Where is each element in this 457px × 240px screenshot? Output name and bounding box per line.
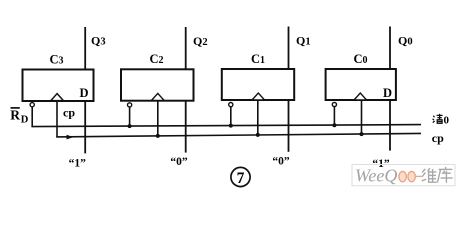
clock triangle C0 [354, 93, 367, 100]
svg-text:“1”: “1” [69, 158, 87, 170]
junction dot C2 reset [128, 124, 132, 128]
svg-text:D: D [21, 114, 29, 125]
wire C2 clock stem [157, 101, 159, 136]
wire D3 input down to constant [84, 101, 86, 153]
svg-text:Q1: Q1 [296, 34, 311, 48]
svg-text:C3: C3 [50, 53, 64, 67]
flip-flop C2 box [121, 69, 194, 100]
svg-text:C0: C0 [354, 52, 368, 66]
wire C3 clock stem [56, 101, 58, 137]
wire clear rail (qing0 net) [31, 125, 421, 127]
flip-flop C1 box [222, 69, 294, 100]
junction dot C1 reset [229, 124, 233, 128]
wire C1 clock stem [257, 100, 259, 135]
svg-text:Q3: Q3 [91, 34, 106, 48]
clock triangle C1 [252, 93, 265, 100]
label qing0 (clear to 0) at right [433, 114, 443, 124]
svg-text:“0”: “0” [170, 156, 188, 168]
figure number 7 in circle [231, 167, 250, 186]
clock triangle C3 [51, 94, 64, 101]
svg-text:C2: C2 [150, 52, 164, 66]
wire C0 clock stem [361, 100, 363, 134]
svg-text:cp: cp [432, 131, 444, 145]
arrow mark on cp rail [67, 135, 74, 140]
svg-text:D: D [383, 86, 392, 100]
reset bubble C0 [332, 102, 336, 106]
wire Q3 output [84, 27, 86, 70]
flip-flop C3 box [23, 70, 94, 102]
wire D0 input down to constant [389, 100, 391, 151]
wire D2 input down to constant [185, 101, 187, 153]
wire C0 reset stem [333, 107, 335, 126]
svg-text:Q2: Q2 [193, 34, 208, 48]
junction dot C1 clock [256, 133, 260, 137]
svg-text:0: 0 [444, 114, 450, 126]
reset bubble C1 [229, 103, 233, 107]
junction dot C0 reset [332, 123, 336, 127]
wire Q0 output [389, 27, 391, 70]
clock triangle C2 [152, 93, 165, 100]
watermark WeeQoo weiku [352, 165, 455, 186]
svg-text:WeeQ: WeeQ [355, 166, 397, 186]
wire D1 input down to constant [288, 100, 290, 152]
wire cp rail [56, 133, 421, 137]
wire C2 reset stem [129, 107, 131, 126]
svg-text:R: R [10, 108, 20, 123]
wire Q2 output [185, 27, 187, 69]
svg-text:cp: cp [63, 106, 75, 120]
label RD-bar (reset input) [10, 108, 29, 126]
svg-text:“0”: “0” [272, 155, 290, 167]
junction dot C2 clock [156, 134, 160, 138]
junction dot C0 clock [360, 132, 364, 136]
reset bubble C2 [128, 103, 132, 107]
wire Q1 output [288, 27, 290, 70]
svg-text:C1: C1 [251, 52, 265, 66]
wire C3 reset stem [31, 107, 33, 127]
svg-text:Q0: Q0 [398, 34, 413, 48]
flip-flop C0 box [326, 69, 396, 100]
svg-text:7: 7 [237, 170, 245, 187]
wire C1 reset stem [230, 107, 232, 126]
svg-text:D: D [80, 86, 89, 100]
reset bubble C3 [30, 103, 34, 107]
